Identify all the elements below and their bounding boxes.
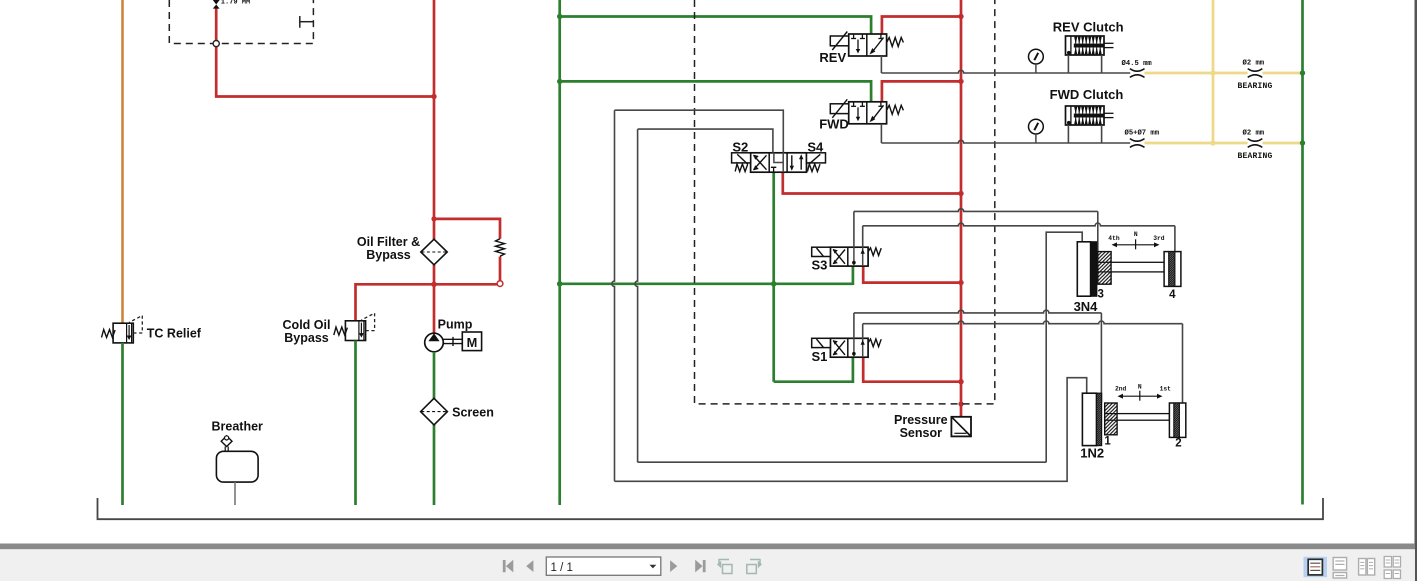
wire red from TC <box>216 6 434 97</box>
svg-text:3: 3 <box>1097 288 1103 300</box>
wire green right return bus <box>1301 0 1304 505</box>
cold oil bypass valve <box>334 321 366 341</box>
svg-text:S1: S1 <box>811 349 827 364</box>
label 2 <box>1175 438 1181 450</box>
label REV Clutch <box>1053 19 1124 34</box>
wire green pump suction <box>433 352 436 505</box>
toolbar next view button <box>747 560 762 574</box>
wire red FWD valve supply <box>882 81 961 101</box>
label 4 <box>1169 289 1176 301</box>
wire green lower distribution <box>560 282 853 285</box>
orifice REV clutch 4.5mm <box>1130 69 1145 78</box>
wire green S2S4 tank drop <box>772 172 775 382</box>
wire yellow REV lube line <box>1145 72 1303 75</box>
svg-text:S2: S2 <box>732 140 748 155</box>
cold oil bypass pilot dashed line <box>361 313 374 331</box>
label FWD Clutch <box>1050 87 1124 102</box>
label O5+O7 mm <box>1125 129 1160 138</box>
wire green TC relief outlet <box>121 343 124 505</box>
label 1N2 <box>1080 446 1104 461</box>
wire red S2S4 pressure out <box>783 172 961 193</box>
svg-text:Ø4.5 mm: Ø4.5 mm <box>1122 59 1153 68</box>
actuator 1N2 cylinder body <box>1082 393 1101 445</box>
pressure sensor <box>951 417 971 437</box>
valve S1 solenoid valve <box>812 338 882 357</box>
valve REV directional solenoid valve <box>830 32 903 57</box>
oil filter symbol <box>421 239 447 265</box>
wire red below filter to pump and cold-oil branch <box>356 265 498 334</box>
wire red S3 supply <box>863 266 961 283</box>
wire S3 port B to 3N4 right cylinder <box>863 223 1175 252</box>
breather symbol <box>216 436 258 482</box>
orifice bearing bottom 2mm <box>1248 139 1263 148</box>
actuator 3N4 cylinder body <box>1077 242 1096 296</box>
label 4th <box>1108 235 1120 242</box>
toolbar background <box>0 549 1415 581</box>
transmission dashed boundary box <box>695 0 995 404</box>
label REV <box>819 50 846 65</box>
label O2 mm top <box>1243 59 1265 68</box>
svg-text:1st: 1st <box>1160 385 1172 392</box>
breather drain stem <box>234 482 236 505</box>
page bottom separator bar <box>0 544 1415 550</box>
label 2nd <box>1115 385 1127 392</box>
svg-text:2nd: 2nd <box>1115 385 1127 392</box>
wire S2S4 loop B to 1N2 cylinder <box>612 110 1087 481</box>
svg-text:Breather: Breather <box>211 419 263 433</box>
wire green FWD supply <box>560 81 871 101</box>
svg-text:REV: REV <box>819 50 846 65</box>
REV clutch pack <box>1066 36 1114 73</box>
svg-text:1 / 1: 1 / 1 <box>551 562 573 574</box>
gauge REV clutch pressure <box>1029 49 1044 73</box>
label Cold Oil Bypass <box>283 318 331 345</box>
wire yellow lube manifold vertical <box>1212 0 1215 143</box>
wire red main pump pressure vertical <box>433 0 436 239</box>
pump symbol <box>425 332 482 352</box>
label S4 <box>807 140 824 155</box>
svg-text:REV Clutch: REV Clutch <box>1053 19 1124 34</box>
FWD clutch pack <box>1066 106 1114 143</box>
node yellow junctions <box>1210 70 1215 145</box>
view continuous facing icon <box>1384 557 1400 579</box>
label FWD <box>819 117 849 132</box>
TC port circle <box>213 41 219 47</box>
node green junctions right bus <box>1300 70 1305 145</box>
svg-text:Sensor: Sensor <box>900 426 943 440</box>
toolbar page number box <box>546 557 661 575</box>
wire green REV supply <box>560 17 871 35</box>
wire red filter bypass branch <box>434 219 500 281</box>
wire S2S4 loop A to 3N4 cylinder <box>635 129 1082 462</box>
label 3rd <box>1153 235 1165 242</box>
svg-text:Cold Oil: Cold Oil <box>283 318 331 332</box>
wire FWD clutch feed line <box>881 124 1130 143</box>
svg-text:Oil Filter &: Oil Filter & <box>357 235 420 249</box>
wire REV clutch feed line <box>881 56 1130 73</box>
view continuous icon <box>1333 558 1346 579</box>
svg-text:1: 1 <box>1104 435 1111 447</box>
toolbar previous view button <box>717 560 732 574</box>
svg-text:N: N <box>1134 231 1138 238</box>
svg-text:BEARING: BEARING <box>1238 82 1273 91</box>
label Oil Filter and Bypass <box>357 235 420 262</box>
node green junction S2S4 drop <box>771 281 777 287</box>
label BEARING bottom <box>1238 152 1273 161</box>
wire red S1 supply <box>863 357 961 381</box>
svg-text:TC Relief: TC Relief <box>147 326 202 340</box>
wire green S3 riser <box>852 266 855 285</box>
label Pump <box>438 317 473 331</box>
valve S3 solenoid valve <box>812 247 882 266</box>
label S2 <box>732 140 748 155</box>
view facing pages icon <box>1359 559 1375 576</box>
1N2 travel arrow <box>1118 391 1163 401</box>
toolbar next page button <box>670 560 677 572</box>
actuator 1N2 right cylinder <box>1169 403 1185 437</box>
svg-text:M: M <box>467 335 478 350</box>
wire red REV valve supply <box>882 17 961 35</box>
label S3 <box>811 258 827 273</box>
actuator 1N2 shift rod <box>1117 414 1169 421</box>
wire S1 port B to 1N2 right cylinder <box>863 321 1183 403</box>
node red junction below filter <box>431 282 436 287</box>
svg-text:3N4: 3N4 <box>1074 299 1099 314</box>
label BEARING top <box>1238 82 1273 91</box>
valve S2 S4 three-position solenoid valve <box>732 153 826 172</box>
wire orange TC supply <box>121 0 124 323</box>
wire green cold oil outlet <box>354 341 357 506</box>
screen symbol <box>421 398 448 425</box>
svg-text:Bypass: Bypass <box>284 331 329 345</box>
svg-text:2: 2 <box>1175 438 1181 450</box>
window right edge <box>1415 0 1417 581</box>
orifice FWD clutch 5+7mm <box>1130 139 1145 148</box>
svg-text:Ø2 mm: Ø2 mm <box>1243 59 1265 68</box>
label Screen <box>452 406 494 420</box>
valve FWD directional solenoid valve <box>830 99 903 124</box>
wire red main supply bus <box>960 0 963 418</box>
label O4.5 mm <box>1122 59 1153 68</box>
view single page icon selected <box>1304 557 1328 577</box>
wire yellow FWD lube line <box>1145 142 1303 145</box>
label Breather <box>211 419 263 433</box>
actuator 3N4 piston <box>1098 252 1111 285</box>
svg-text:FWD: FWD <box>819 117 849 132</box>
label O2 mm bottom <box>1243 129 1265 138</box>
3N4 travel arrow <box>1112 239 1160 249</box>
svg-text:Ø5+Ø7 mm: Ø5+Ø7 mm <box>1125 129 1160 138</box>
torque converter dashed boundary box <box>169 0 313 44</box>
svg-text:4: 4 <box>1169 289 1176 301</box>
svg-text:1.79 MM: 1.79 MM <box>221 0 250 6</box>
svg-text:S4: S4 <box>807 140 824 155</box>
toolbar last page button <box>695 560 705 573</box>
label 1st <box>1160 385 1172 392</box>
toolbar first page button <box>503 560 514 573</box>
TC drain termination symbol <box>300 16 314 28</box>
svg-text:Screen: Screen <box>452 406 494 420</box>
toolbar previous page button <box>526 560 533 572</box>
label 1 <box>1104 435 1111 447</box>
label 3N4 <box>1074 299 1099 314</box>
bypass drain open circle <box>497 281 503 287</box>
wire green main bus <box>558 0 561 505</box>
node green junctions on bus <box>557 14 563 287</box>
svg-text:1N2: 1N2 <box>1080 446 1104 461</box>
svg-text:N: N <box>1138 383 1142 390</box>
TC relief valve <box>102 323 134 343</box>
node red bus junctions <box>958 14 963 407</box>
label N 1N2 <box>1138 383 1142 390</box>
actuator 3N4 right cylinder <box>1164 252 1181 287</box>
actuator 1N2 piston <box>1105 403 1117 435</box>
wire S1 port A to 1N2 piston <box>854 310 1102 403</box>
svg-text:BEARING: BEARING <box>1238 152 1273 161</box>
TC relief pilot dashed line <box>129 316 142 334</box>
svg-text:Ø2 mm: Ø2 mm <box>1243 129 1265 138</box>
node red junction at converter line <box>431 94 436 99</box>
label N 3N4 <box>1134 231 1138 238</box>
TC charge orifice 1.79 MM <box>213 0 220 9</box>
svg-text:FWD Clutch: FWD Clutch <box>1050 87 1124 102</box>
gauge FWD clutch pressure <box>1029 119 1044 143</box>
label TC Relief <box>147 326 202 340</box>
svg-text:4th: 4th <box>1108 235 1120 242</box>
wire S3 port A to 3N4 piston <box>854 209 1098 252</box>
filter bypass relief spring <box>496 239 505 256</box>
svg-text:Pressure: Pressure <box>894 413 948 427</box>
actuator 3N4 shift rod <box>1111 262 1164 272</box>
label 1.79 MM <box>221 0 250 6</box>
node red junction filter top <box>431 216 436 221</box>
svg-text:Bypass: Bypass <box>366 248 411 262</box>
orifice bearing top 2mm <box>1248 69 1263 78</box>
svg-text:Pump: Pump <box>438 317 473 331</box>
wire green S1 loop <box>774 357 853 381</box>
svg-text:S3: S3 <box>811 258 827 273</box>
label Pressure Sensor <box>894 413 948 440</box>
label 3 <box>1097 288 1103 300</box>
wire bottom frame rail <box>98 498 1324 519</box>
label S1 <box>811 349 827 364</box>
svg-text:3rd: 3rd <box>1153 235 1165 242</box>
